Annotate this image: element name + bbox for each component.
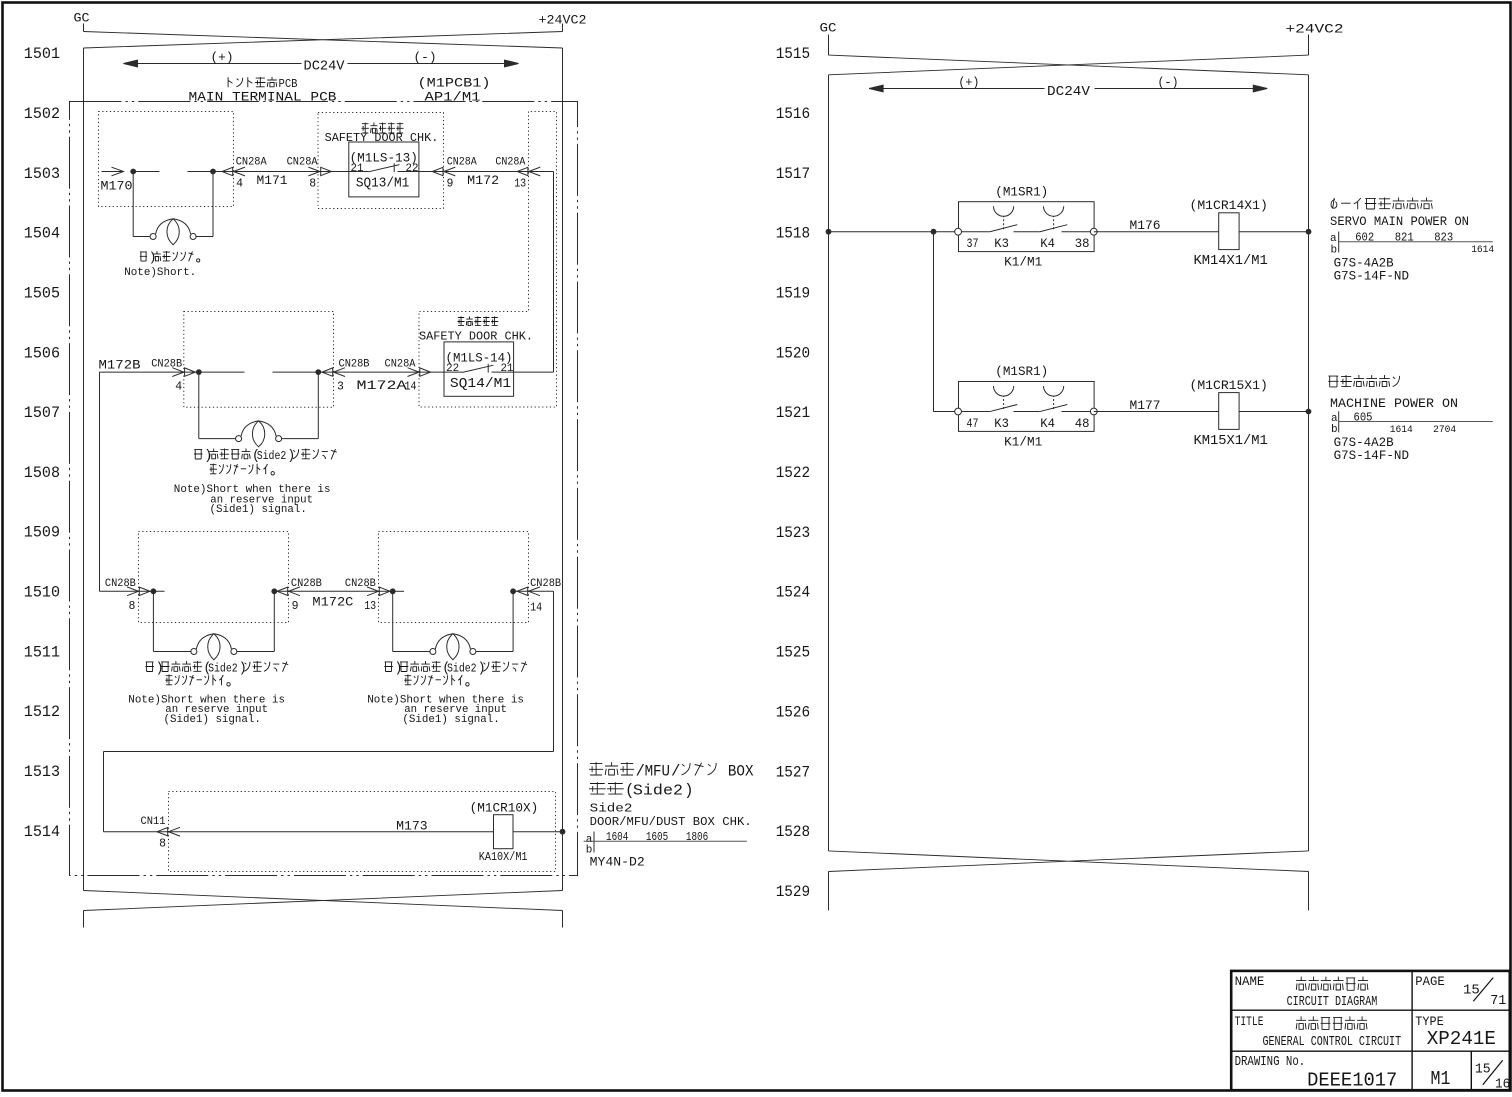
title block row divider 2	[1231, 1050, 1510, 1052]
svg-text:SAFETY DOOR CHK.: SAFETY DOOR CHK.	[325, 131, 439, 145]
svg-text:M172C: M172C	[312, 595, 353, 610]
svg-text:M177: M177	[1130, 398, 1161, 413]
wire GC stub (right top)	[828, 35, 830, 56]
label JP door/mfu/dustbox	[589, 762, 603, 775]
junction M172A right	[315, 369, 321, 375]
svg-text:Side2: Side2	[633, 784, 683, 800]
junction short-plug-right R	[510, 588, 516, 594]
wire +24V left rail (right half)	[828, 75, 830, 851]
svg-text:602: 602	[1355, 232, 1374, 245]
label DC24V span arrow (right)	[875, 88, 1045, 90]
svg-text:NAME: NAME	[1235, 975, 1265, 989]
svg-text:G7S-14F-ND: G7S-14F-ND	[1334, 449, 1409, 463]
svg-text:PAGE: PAGE	[1415, 975, 1444, 989]
svg-text:SQ14/M1: SQ14/M1	[450, 377, 511, 392]
svg-text:821: 821	[1395, 232, 1414, 245]
svg-text:SQ13/M1: SQ13/M1	[356, 177, 409, 192]
connector CN28B pin4 (M172A box)	[172, 368, 184, 377]
board outline M1PCB1 (chain line)	[70, 102, 578, 876]
contacts K3 K4 (row1521)	[958, 411, 989, 413]
wire SQ14 to riser	[514, 371, 554, 373]
label JP kakunin(Side2)	[589, 782, 606, 794]
svg-text:CN28B: CN28B	[151, 359, 182, 371]
note JP reserve (M172A) line1	[194, 449, 203, 459]
label JP general control circuit	[1296, 1016, 1306, 1029]
short plug under M172A box	[198, 372, 200, 439]
svg-text:22: 22	[406, 163, 419, 175]
enclosure SQ13 safety door box	[318, 113, 444, 209]
svg-text:+24VC2: +24VC2	[1286, 22, 1344, 37]
wire M171	[213, 171, 349, 173]
svg-text:a: a	[1330, 233, 1337, 245]
relay contact block K1/M1 box (row1521)	[959, 382, 1095, 432]
wire M172	[419, 171, 554, 173]
svg-text:3: 3	[337, 381, 344, 394]
svg-text:(Side1) signal.: (Side1) signal.	[210, 504, 307, 516]
wire top crossover (right half)	[829, 55, 1309, 75]
svg-text:DC24V: DC24V	[304, 59, 346, 75]
svg-text:BOX: BOX	[719, 763, 753, 781]
svg-text:4: 4	[236, 178, 243, 191]
svg-text:KM15X1/M1: KM15X1/M1	[1194, 434, 1268, 449]
svg-text:Side2: Side2	[208, 662, 238, 676]
svg-text:1525: 1525	[776, 644, 811, 662]
svg-text:(-): (-)	[414, 50, 437, 65]
svg-text:1614: 1614	[1471, 244, 1494, 256]
svg-text:M172A: M172A	[357, 378, 407, 393]
svg-text:15: 15	[1475, 1063, 1491, 1078]
svg-text:Side2: Side2	[447, 662, 477, 676]
wire top crossover (left half)	[84, 32, 563, 49]
svg-text:K3: K3	[994, 236, 1009, 251]
terminal circle left row1518	[955, 228, 962, 235]
svg-text:b: b	[1331, 244, 1338, 256]
svg-text:1527: 1527	[776, 763, 811, 781]
label main-terminal-pcb JP	[228, 77, 232, 87]
junction GC rail row1518	[1306, 229, 1312, 235]
svg-text:37: 37	[967, 236, 979, 251]
connector CN28A pin4	[234, 167, 246, 176]
svg-text:MACHINE POWER ON: MACHINE POWER ON	[1330, 397, 1458, 411]
svg-text:(M1CR14X1): (M1CR14X1)	[1190, 199, 1268, 213]
svg-text:CN28A: CN28A	[447, 157, 477, 169]
svg-text:14: 14	[530, 602, 542, 615]
wire M170 input arrow	[102, 171, 123, 173]
svg-text:47: 47	[967, 416, 979, 431]
svg-text:GENERAL CONTROL CIRCUIT: GENERAL CONTROL CIRCUIT	[1263, 1035, 1402, 1050]
wire +24V left rail	[83, 48, 85, 891]
note JP reserve (right box) line2	[404, 675, 412, 685]
junction M170 left	[130, 169, 136, 175]
svg-text:1523: 1523	[776, 524, 811, 542]
svg-text:Note)Short.: Note)Short.	[124, 267, 196, 279]
svg-text:M172B: M172B	[99, 358, 141, 373]
junction KA10X-GC	[560, 829, 566, 835]
wire GC stub (left top)	[83, 24, 85, 32]
wire GC right rail (left half)	[562, 48, 564, 891]
connector CN28B pin8 (row3)	[127, 587, 139, 596]
svg-text:MY4N-D2: MY4N-D2	[590, 856, 645, 870]
svg-text:GC: GC	[820, 21, 837, 36]
svg-text:1529: 1529	[776, 883, 811, 901]
limit switch SQ13/M1 box	[349, 142, 419, 197]
wire bottom stub right (right half)	[1308, 872, 1310, 911]
svg-text:CN28A: CN28A	[236, 157, 267, 169]
wire M172A stub left	[199, 371, 245, 373]
label JP safety door chk (SQ13)	[362, 123, 369, 134]
wire long return	[104, 751, 554, 753]
svg-text:DOOR/MFU/DUST BOX CHK.: DOOR/MFU/DUST BOX CHK.	[590, 815, 752, 829]
svg-text:9: 9	[292, 600, 299, 613]
svg-text:DRAWING No.: DRAWING No.	[1235, 1055, 1306, 1070]
wire +24VC2 stub (right top)	[1308, 35, 1310, 56]
svg-text:a: a	[1331, 413, 1338, 425]
wire right plug stub	[393, 590, 404, 592]
wire M173	[104, 831, 494, 833]
connector CN28A pin13	[529, 167, 541, 176]
relay contact block K1/M1 box (row1518)	[959, 202, 1095, 252]
svg-text:CIRCUIT DIAGRAM: CIRCUIT DIAGRAM	[1287, 995, 1378, 1010]
svg-text:13: 13	[514, 178, 526, 191]
wire drop to CN11	[103, 752, 105, 832]
limit switch SQ14/M1 box	[444, 342, 514, 396]
title block column divider	[1411, 971, 1413, 1090]
svg-text:M176: M176	[1130, 218, 1161, 233]
wire M172A to SQ14	[318, 371, 444, 373]
contacts K3 K4 (row1518)	[958, 231, 989, 233]
svg-text:21: 21	[351, 163, 364, 175]
note JP reserve (right box) line1	[384, 662, 393, 672]
enclosure M172A short-plug box	[184, 312, 334, 408]
junction short-plug-right L	[390, 588, 396, 594]
svg-text:1605: 1605	[646, 831, 668, 844]
svg-text:G7S-14F-ND: G7S-14F-ND	[1334, 270, 1409, 284]
svg-text:(M1SR1): (M1SR1)	[995, 365, 1048, 379]
svg-text:(M1PCB1): (M1PCB1)	[418, 76, 491, 91]
svg-text:1514: 1514	[24, 823, 60, 841]
svg-text:/: /	[636, 763, 645, 781]
wire coil to GC rail (1521)	[1239, 411, 1308, 413]
enclosure relay KA10X box	[169, 792, 556, 872]
svg-text:(+): (+)	[211, 50, 234, 65]
svg-text:1510: 1510	[24, 584, 60, 602]
svg-text:M171: M171	[257, 173, 288, 188]
svg-text:4: 4	[175, 381, 182, 394]
wire M172B to CN28B pin8	[100, 590, 165, 592]
label DC24V span arrow (left)	[130, 63, 302, 65]
junction M170 right	[210, 169, 216, 175]
connector CN28B pin14 (row3)	[529, 587, 541, 596]
note JP reserve (left box) line1	[145, 662, 154, 672]
note JP reserve (left box) line2	[165, 675, 173, 685]
svg-text:XP241E: XP241E	[1427, 1028, 1496, 1050]
svg-text:M170: M170	[101, 179, 133, 194]
svg-text:K4: K4	[1040, 236, 1055, 251]
note JP short M170	[140, 252, 147, 261]
svg-text:1509: 1509	[24, 524, 60, 542]
junction +24V rail row1518	[826, 229, 832, 235]
svg-text:1506: 1506	[24, 344, 60, 362]
svg-text:1515: 1515	[776, 45, 811, 63]
svg-text:1521: 1521	[776, 404, 811, 422]
svg-text:K4: K4	[1040, 416, 1055, 431]
svg-text:1520: 1520	[776, 344, 811, 362]
svg-text:48: 48	[1075, 416, 1090, 431]
svg-text:MFU: MFU	[645, 763, 670, 781]
svg-text:8: 8	[309, 178, 316, 191]
terminal circle left row1521	[955, 408, 962, 415]
svg-text:TITLE: TITLE	[1235, 1015, 1264, 1029]
svg-text:Side2: Side2	[590, 802, 633, 816]
connector CN28A pin9	[444, 167, 456, 176]
wire +24VC2 stub (left top)	[562, 24, 564, 32]
connector CN11 pin8	[169, 827, 181, 836]
svg-text:1508: 1508	[24, 464, 60, 482]
svg-text:2704: 2704	[1433, 424, 1456, 436]
terminal circle right row1518	[1090, 228, 1097, 235]
wire coil to GC rail	[513, 831, 563, 833]
left line-number column 1501-1514	[24, 45, 60, 841]
svg-text:1516: 1516	[776, 105, 811, 123]
svg-text:1503: 1503	[24, 165, 60, 183]
svg-text:71: 71	[1490, 994, 1506, 1009]
wire riser pin13 to SQ14	[553, 172, 555, 373]
connector CN28B pin13 (row3)	[367, 587, 379, 596]
wire GC right rail (right half)	[1308, 75, 1310, 851]
svg-text:TYPE: TYPE	[1415, 1015, 1443, 1029]
svg-text:1518: 1518	[776, 225, 811, 243]
svg-text:9: 9	[447, 178, 454, 191]
svg-text:(Side1) signal.: (Side1) signal.	[402, 714, 499, 726]
svg-text:SAFETY DOOR CHK.: SAFETY DOOR CHK.	[419, 330, 533, 344]
junction M172A left	[196, 369, 202, 375]
svg-text:CN11: CN11	[141, 816, 166, 828]
junction GC rail row1521	[1306, 409, 1312, 415]
svg-text:CN28B: CN28B	[530, 578, 561, 590]
connector CN28B pin3	[334, 368, 346, 377]
wire bottom stub left (right half)	[828, 872, 830, 911]
svg-text:1614: 1614	[1390, 424, 1413, 436]
wire bottom crossover (right half)	[829, 851, 1309, 872]
wire M170 stub right	[188, 171, 214, 173]
wire bottom crossover (left half)	[84, 891, 563, 911]
svg-text:21: 21	[501, 363, 514, 375]
short plug under left M172C box	[152, 591, 154, 651]
svg-text:(Side1) signal.: (Side1) signal.	[164, 714, 261, 726]
svg-text:CN28A: CN28A	[495, 157, 525, 169]
svg-text:MAIN TERMINAL PCB: MAIN TERMINAL PCB	[189, 90, 337, 105]
svg-text:(M1CR15X1): (M1CR15X1)	[1190, 379, 1268, 393]
short plug under M170	[132, 172, 134, 237]
enclosure M172C short-plug box (left)	[139, 532, 289, 623]
svg-text:1524: 1524	[776, 584, 811, 602]
svg-text:1522: 1522	[776, 464, 811, 482]
svg-text:KM14X1/M1: KM14X1/M1	[1194, 254, 1268, 269]
svg-text:K1/M1: K1/M1	[1004, 256, 1042, 270]
wire branch to K1 (1521)	[934, 411, 959, 413]
svg-text:22: 22	[446, 363, 459, 375]
svg-text:(+): (+)	[958, 75, 979, 90]
svg-text:14: 14	[405, 381, 417, 394]
title block row divider 1	[1231, 1009, 1510, 1011]
svg-text:38: 38	[1075, 236, 1090, 251]
wire M176	[1094, 231, 1219, 233]
note JP reserve (M172A) line2	[210, 464, 218, 474]
enclosure M172 riser + SQ14 box	[419, 112, 557, 408]
svg-text:605: 605	[1354, 411, 1373, 424]
svg-text:(M1SR1): (M1SR1)	[995, 185, 1048, 199]
svg-text:CN28B: CN28B	[105, 578, 136, 590]
svg-text:G7S-4A2B: G7S-4A2B	[1334, 256, 1394, 270]
enclosure M170 short-plug box	[99, 112, 234, 207]
wire M172B riser	[99, 372, 101, 591]
wire rail to branch (1518)	[829, 231, 959, 233]
svg-text:(M1CR10X): (M1CR10X)	[470, 802, 539, 816]
svg-text:M1: M1	[1431, 1068, 1451, 1090]
svg-text:CN28B: CN28B	[345, 578, 376, 590]
svg-text:8: 8	[129, 600, 136, 613]
svg-text:1604: 1604	[606, 831, 628, 844]
svg-text:M173: M173	[396, 819, 428, 834]
wire coil to GC rail (1518)	[1239, 231, 1308, 233]
svg-text:/: /	[671, 763, 680, 781]
wire M172C	[274, 590, 392, 592]
junction short-plug-left L	[151, 588, 157, 594]
svg-text:DEEE1017: DEEE1017	[1307, 1070, 1397, 1092]
short plug under right M172C box	[392, 591, 394, 651]
label JP circuit diagram	[1296, 977, 1306, 990]
enclosure M172C short-plug box (right)	[379, 532, 529, 623]
connector CN28B pin9 (row3)	[289, 587, 301, 596]
svg-text:G7S-4A2B: G7S-4A2B	[1334, 436, 1394, 450]
svg-text:K3: K3	[994, 416, 1009, 431]
right line-number column 1515-1529	[776, 45, 811, 901]
svg-text:13: 13	[364, 600, 376, 613]
svg-text:1528: 1528	[776, 823, 811, 841]
wire M172B horizontal	[100, 371, 199, 373]
title block frame	[1231, 971, 1510, 1090]
wire riser pin14 down	[553, 591, 555, 751]
svg-text:AP1/M1: AP1/M1	[425, 90, 481, 105]
junction branch 1518	[931, 229, 937, 235]
svg-text:1502: 1502	[24, 105, 60, 123]
svg-text:b: b	[1331, 424, 1338, 436]
svg-text:CN28A: CN28A	[287, 157, 318, 169]
svg-text:8: 8	[159, 838, 166, 851]
svg-text:1505: 1505	[24, 284, 60, 302]
title block row3 divider	[1470, 1051, 1472, 1090]
relay coil KM15X1	[1219, 393, 1239, 430]
svg-text:1513: 1513	[24, 763, 60, 781]
svg-text:KA10X/M1: KA10X/M1	[479, 850, 528, 864]
connector CN28A pin14	[408, 368, 420, 377]
wire pin14 exit	[513, 590, 553, 592]
svg-text:b: b	[586, 844, 593, 856]
terminal circle right row1521	[1090, 408, 1097, 415]
relay coil KA10X	[494, 815, 514, 849]
wire branch riser 1518-1521	[933, 232, 935, 412]
svg-text:1806: 1806	[686, 831, 708, 844]
svg-text:1517: 1517	[776, 165, 811, 183]
svg-text:16: 16	[1495, 1078, 1510, 1092]
svg-text:1519: 1519	[776, 285, 811, 303]
svg-text:DC24V: DC24V	[1047, 84, 1091, 100]
switch SQ14 contact	[444, 371, 463, 373]
svg-text:1512: 1512	[24, 703, 60, 721]
svg-text:): )	[684, 782, 693, 800]
svg-text:823: 823	[1434, 232, 1453, 245]
svg-text:CN28B: CN28B	[339, 359, 370, 371]
svg-text:1526: 1526	[776, 704, 811, 722]
svg-text:1511: 1511	[24, 643, 60, 661]
svg-text:CN28B: CN28B	[291, 578, 322, 590]
svg-text:M172: M172	[467, 173, 499, 188]
junction short-plug-left R	[271, 588, 277, 594]
svg-text:1507: 1507	[24, 404, 60, 422]
svg-text:SERVO MAIN POWER ON: SERVO MAIN POWER ON	[1330, 215, 1469, 229]
svg-text:Side2: Side2	[257, 449, 287, 463]
svg-text:1501: 1501	[24, 45, 60, 63]
relay coil KM14X1	[1219, 213, 1239, 250]
wire bottom stub right	[562, 911, 564, 928]
wire M177	[1094, 411, 1219, 413]
svg-text:1504: 1504	[24, 225, 60, 243]
connector CN28A pin8	[308, 167, 320, 176]
svg-text:GC: GC	[74, 11, 90, 26]
svg-text:(-): (-)	[1158, 75, 1179, 90]
wire bottom stub left	[83, 911, 85, 928]
label JP servo main power	[1331, 198, 1337, 209]
wire M170 stub left	[133, 171, 159, 173]
svg-text:K1/M1: K1/M1	[1004, 436, 1042, 450]
switch SQ13 contact	[349, 171, 369, 173]
wire M172A stub right	[273, 371, 319, 373]
label JP machine power	[1328, 376, 1338, 387]
label JP safety door chk (SQ14)	[458, 316, 465, 325]
